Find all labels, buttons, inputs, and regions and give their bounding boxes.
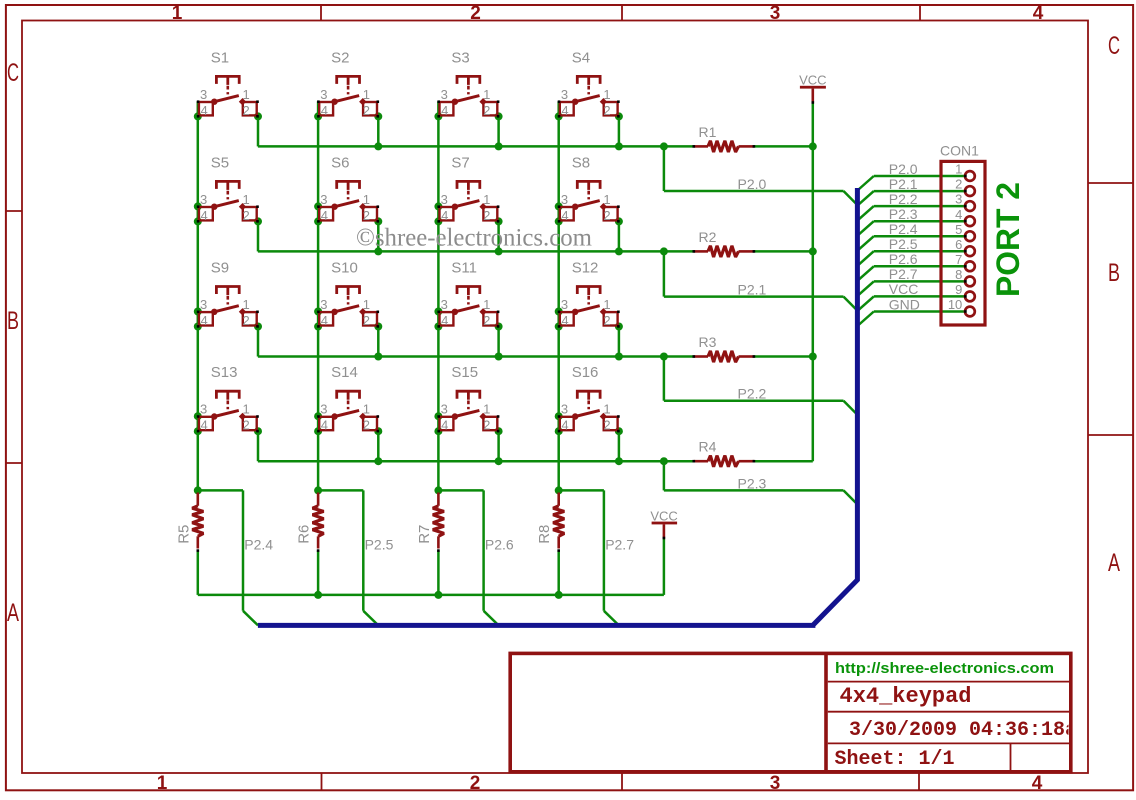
junction S15 pin4 bbox=[434, 427, 442, 435]
wire S12 pin2 drop bbox=[618, 327, 621, 357]
wire CON1 pin 7 lead bbox=[874, 265, 966, 268]
wire row 2 horizontal left segment bbox=[258, 250, 694, 253]
svg-text:VCC: VCC bbox=[889, 281, 919, 297]
junction row 3 col 3 bbox=[495, 353, 503, 361]
junction S7 pin4 bbox=[434, 217, 442, 225]
connector pin 10 circle bbox=[965, 307, 975, 317]
junction row 1 P2.0 drop bbox=[660, 142, 668, 150]
junction S11 pin3 bbox=[434, 308, 442, 316]
frame top tick 1-2 bbox=[320, 5, 322, 21]
junction S14 pin4 bbox=[314, 427, 322, 435]
wire bus exit diagonal P2.2 bbox=[857, 206, 873, 221]
junction S6 pin4 bbox=[314, 217, 322, 225]
junction S9 pin4 bbox=[194, 323, 202, 331]
connector pin 2 tick bbox=[964, 190, 967, 193]
wire S9 pin2 drop bbox=[257, 327, 260, 357]
title block row line 3 bbox=[828, 742, 1069, 744]
svg-text:P2.3: P2.3 bbox=[889, 206, 918, 222]
svg-text:P2.0: P2.0 bbox=[889, 161, 918, 177]
junction S4 pin2 bbox=[615, 112, 623, 120]
junction S5 pin4 bbox=[194, 217, 202, 225]
svg-text:P2.4: P2.4 bbox=[244, 537, 273, 553]
wire CON1 pin 6 lead bbox=[874, 250, 966, 253]
wire row 1 drop to P2.0 net bbox=[663, 146, 666, 191]
switch S16 bbox=[558, 364, 620, 432]
svg-text:2: 2 bbox=[470, 773, 481, 794]
switch S3 bbox=[437, 49, 499, 117]
wire bus exit diagonal P2.4 bbox=[857, 236, 873, 251]
svg-text:CON1: CON1 bbox=[940, 142, 979, 158]
svg-text:S4: S4 bbox=[572, 49, 590, 66]
junction row 3 P2.2 drop bbox=[660, 353, 668, 361]
wire P2.6 horizontal stub bbox=[438, 489, 483, 492]
bus P2[0..7],VCC,GND bbox=[258, 188, 858, 625]
resistor R5 bbox=[175, 493, 203, 552]
junction S8 pin2 bbox=[615, 217, 623, 225]
svg-text:GND: GND bbox=[889, 296, 920, 312]
junction S16 pin4 bbox=[555, 427, 563, 435]
wire S7 pin2 drop bbox=[497, 221, 500, 251]
wire P2.5 horizontal stub bbox=[318, 489, 363, 492]
svg-text:3/30/2009 04:36:18am: 3/30/2009 04:36:18am bbox=[849, 719, 1089, 742]
svg-text:P2.4: P2.4 bbox=[889, 221, 918, 237]
junction S2 pin2 bbox=[374, 112, 382, 120]
supply VCC bottom bbox=[650, 508, 677, 539]
junction S8 pin3 bbox=[555, 202, 563, 210]
wire P2.1 bus entry diagonal bbox=[844, 297, 858, 311]
title block divider bbox=[824, 653, 828, 771]
svg-text:R5: R5 bbox=[175, 525, 192, 544]
wire P2.3 horizontal to bus bbox=[664, 489, 844, 492]
wire S13 pin2 drop bbox=[257, 431, 260, 461]
frame bottom tick 3-4 bbox=[918, 773, 920, 790]
svg-text:P2.2: P2.2 bbox=[889, 191, 918, 207]
switch S11 bbox=[437, 260, 499, 328]
svg-text:S8: S8 bbox=[572, 154, 590, 171]
junction S5 pin3 bbox=[194, 202, 202, 210]
svg-text:5: 5 bbox=[955, 222, 962, 237]
frame top tick 2-3 bbox=[621, 5, 623, 21]
connector pin 4 tick bbox=[964, 220, 967, 223]
wire S15 pin2 drop bbox=[497, 431, 500, 461]
svg-text:A: A bbox=[7, 599, 19, 627]
wire P2.0 bus entry diagonal bbox=[844, 191, 858, 205]
title date bbox=[849, 719, 1089, 742]
connector pin 3 circle bbox=[965, 201, 975, 211]
svg-text:1: 1 bbox=[157, 773, 168, 794]
supply VCC top bbox=[799, 73, 826, 104]
wire CON1 pin 1 lead bbox=[874, 175, 966, 178]
junction R8 top / P2.7 bbox=[555, 486, 563, 494]
wire P2.7 horizontal stub bbox=[559, 489, 604, 492]
svg-text:R4: R4 bbox=[699, 439, 717, 455]
resistor R3 bbox=[693, 334, 756, 362]
title block row line 2 bbox=[828, 711, 1069, 713]
connector pin 9 tick bbox=[964, 295, 967, 298]
junction R7 bottom bbox=[434, 591, 442, 599]
wire CON1 pin 5 lead bbox=[874, 235, 966, 238]
junction S16 pin2 bbox=[615, 427, 623, 435]
svg-text:R7: R7 bbox=[416, 525, 433, 544]
connector pin 10 tick bbox=[964, 310, 967, 313]
svg-text:6: 6 bbox=[955, 237, 962, 252]
wire row 2 horizontal right segment bbox=[754, 250, 813, 253]
wire column 2 left vertical net bbox=[317, 101, 320, 490]
wire row 1 horizontal left segment bbox=[258, 145, 694, 148]
resistor R1 bbox=[693, 124, 756, 152]
svg-text:4x4_keypad: 4x4_keypad bbox=[840, 684, 972, 709]
wire P2.4 vertical bbox=[242, 490, 245, 610]
frame bottom tick 1-2 bbox=[321, 773, 323, 790]
svg-text:R3: R3 bbox=[699, 334, 717, 350]
connector pin 1 tick bbox=[964, 175, 967, 178]
switch S9 bbox=[197, 260, 259, 328]
svg-text:P2.5: P2.5 bbox=[365, 537, 394, 553]
switch S2 bbox=[317, 49, 379, 117]
svg-text:S15: S15 bbox=[451, 364, 478, 381]
connector pin 7 tick bbox=[964, 265, 967, 268]
junction S13 pin2 bbox=[254, 427, 262, 435]
wire CON1 pin 3 lead bbox=[874, 205, 966, 208]
junction S12 pin4 bbox=[555, 323, 563, 331]
junction row 2 col 2 bbox=[374, 247, 382, 255]
svg-text:S12: S12 bbox=[572, 260, 599, 277]
svg-text:©shree-electronics.com: ©shree-electronics.com bbox=[356, 225, 593, 252]
resistor R2 bbox=[693, 229, 756, 257]
connector pin 4 circle bbox=[965, 216, 975, 226]
svg-text:P2.1: P2.1 bbox=[889, 176, 918, 192]
svg-text:C: C bbox=[1108, 32, 1120, 60]
svg-text:2: 2 bbox=[955, 177, 962, 192]
svg-text:3: 3 bbox=[770, 773, 781, 794]
junction S10 pin3 bbox=[314, 308, 322, 316]
connector pin 3 tick bbox=[964, 205, 967, 208]
junction S3 pin2 bbox=[495, 112, 503, 120]
connector CON1 body bbox=[941, 161, 985, 325]
wire row 3 drop to P2.2 net bbox=[663, 357, 666, 401]
switch S14 bbox=[317, 364, 379, 432]
svg-text:P2.2: P2.2 bbox=[738, 386, 767, 402]
resistor R4 bbox=[693, 439, 756, 467]
junction S6 pin2 bbox=[374, 217, 382, 225]
wire P2.6 vertical bbox=[482, 490, 485, 610]
switch S1 bbox=[197, 49, 259, 117]
switch S10 bbox=[317, 260, 379, 328]
wire row 3 horizontal right segment bbox=[754, 355, 813, 358]
wire row 4 drop to P2.3 net bbox=[663, 461, 666, 490]
svg-text:1: 1 bbox=[955, 162, 962, 177]
resistor R7 bbox=[416, 493, 444, 552]
junction S7 pin2 bbox=[495, 217, 503, 225]
junction S11 pin2 bbox=[495, 323, 503, 331]
svg-text:R2: R2 bbox=[699, 229, 717, 245]
junction VCC line row 3 bbox=[809, 353, 817, 361]
wire P2.1 horizontal to bus bbox=[664, 295, 844, 298]
connector pin 8 tick bbox=[964, 280, 967, 283]
junction S9 pin3 bbox=[194, 308, 202, 316]
wire VCC2 vertical bbox=[663, 538, 666, 595]
wire CON1 pin 8 lead bbox=[874, 280, 966, 283]
junction row 4 col 3 bbox=[495, 457, 503, 465]
junction VCC line row 1 bbox=[809, 142, 817, 150]
junction row 1 col 4 bbox=[615, 142, 623, 150]
connector pin 5 circle bbox=[965, 231, 975, 241]
wire P2.0 horizontal to bus bbox=[664, 190, 844, 193]
svg-text:8: 8 bbox=[955, 267, 962, 282]
wire bus exit diagonal P2.3 bbox=[857, 221, 873, 236]
junction R6 bottom bbox=[314, 591, 322, 599]
svg-text:http://shree-electronics.com: http://shree-electronics.com bbox=[835, 660, 1054, 677]
wire row 1 horizontal right segment bbox=[754, 145, 813, 148]
wire P2.2 bus entry diagonal bbox=[844, 401, 858, 415]
wire CON1 pin 2 lead bbox=[874, 190, 966, 193]
wire CON1 pin 10 lead bbox=[874, 310, 966, 313]
svg-text:P2.7: P2.7 bbox=[605, 537, 634, 553]
frame right tick C-B bbox=[1088, 182, 1133, 184]
switch S15 bbox=[437, 364, 499, 432]
junction row 1 col 2 bbox=[374, 142, 382, 150]
junction R7 top / P2.6 bbox=[434, 486, 442, 494]
junction row 4 col 4 bbox=[615, 457, 623, 465]
wire VCC vertical feed bbox=[812, 103, 815, 462]
svg-text:10: 10 bbox=[948, 297, 962, 312]
wire S1 pin2 drop bbox=[257, 116, 260, 146]
junction S8 pin4 bbox=[555, 217, 563, 225]
wire row 4 horizontal left segment bbox=[258, 460, 694, 463]
wire P2.2 horizontal to bus bbox=[664, 399, 844, 402]
junction row 2 P2.1 drop bbox=[660, 247, 668, 255]
junction S2 pin4 bbox=[314, 112, 322, 120]
junction VCC line row 2 bbox=[809, 247, 817, 255]
resistor R6 bbox=[296, 493, 324, 552]
svg-text:P2.0: P2.0 bbox=[738, 176, 767, 192]
junction S4 pin4 bbox=[555, 112, 563, 120]
svg-text:S1: S1 bbox=[211, 49, 229, 66]
svg-text:PORT 2: PORT 2 bbox=[990, 182, 1026, 297]
svg-text:P2.1: P2.1 bbox=[738, 282, 767, 298]
svg-text:Sheet: 1/1: Sheet: 1/1 bbox=[835, 748, 955, 771]
svg-text:R6: R6 bbox=[296, 525, 313, 544]
svg-text:A: A bbox=[1108, 549, 1120, 577]
junction row 1 col 3 bbox=[495, 142, 503, 150]
wire S5 pin2 drop bbox=[257, 221, 260, 251]
wire S16 pin2 drop bbox=[618, 431, 621, 461]
wire S11 pin2 drop bbox=[497, 327, 500, 357]
frame bottom tick 2-3 bbox=[621, 773, 623, 790]
svg-text:P2.3: P2.3 bbox=[738, 475, 767, 491]
junction S10 pin2 bbox=[374, 323, 382, 331]
wire column 3 left vertical net bbox=[437, 101, 440, 490]
wire row 2 drop to P2.1 net bbox=[663, 251, 666, 296]
connector pin 5 tick bbox=[964, 235, 967, 238]
connector pin 2 circle bbox=[965, 186, 975, 196]
junction S12 pin2 bbox=[615, 323, 623, 331]
wire P2.7 bus entry diagonal bbox=[604, 611, 619, 626]
junction R5 top / P2.4 bbox=[194, 486, 202, 494]
wire R6 bottom lead bbox=[317, 551, 320, 595]
wire bus exit diagonal VCC bbox=[857, 296, 873, 311]
connector pin 6 circle bbox=[965, 246, 975, 256]
title block outline bbox=[510, 653, 1071, 771]
junction S5 pin2 bbox=[254, 217, 262, 225]
wire R7 bottom lead bbox=[437, 551, 440, 595]
wire row 4 horizontal right segment bbox=[754, 460, 813, 463]
svg-text:2: 2 bbox=[470, 3, 481, 24]
connector pin 1 circle bbox=[965, 171, 975, 181]
wire bus exit diagonal P2.0 bbox=[857, 176, 873, 191]
svg-text:S7: S7 bbox=[451, 154, 469, 171]
wire P2.5 bus entry diagonal bbox=[363, 611, 378, 626]
svg-text:VCC: VCC bbox=[799, 73, 826, 88]
junction S14 pin3 bbox=[314, 412, 322, 420]
svg-text:9: 9 bbox=[955, 282, 962, 297]
switch S12 bbox=[558, 260, 620, 328]
svg-text:S13: S13 bbox=[211, 364, 238, 381]
svg-text:S14: S14 bbox=[331, 364, 358, 381]
wire bus exit diagonal P2.5 bbox=[857, 251, 873, 266]
svg-text:S11: S11 bbox=[451, 260, 477, 277]
junction S16 pin3 bbox=[555, 412, 563, 420]
svg-text:S16: S16 bbox=[572, 364, 599, 381]
switch S6 bbox=[317, 154, 379, 222]
svg-text:3: 3 bbox=[955, 192, 962, 207]
svg-text:7: 7 bbox=[955, 252, 962, 267]
wire R5 bottom lead bbox=[197, 551, 200, 595]
wire P2.6 bus entry diagonal bbox=[484, 611, 499, 626]
switch S4 bbox=[558, 49, 620, 117]
junction S15 pin3 bbox=[434, 412, 442, 420]
svg-text:P2.7: P2.7 bbox=[889, 266, 918, 282]
svg-text:S3: S3 bbox=[451, 49, 469, 66]
svg-text:B: B bbox=[1108, 259, 1120, 287]
wire S6 pin2 drop bbox=[377, 221, 380, 251]
junction S13 pin3 bbox=[194, 412, 202, 420]
wire S14 pin2 drop bbox=[377, 431, 380, 461]
svg-text:P2.5: P2.5 bbox=[889, 236, 918, 252]
svg-text:1: 1 bbox=[172, 3, 183, 24]
wire CON1 pin 9 lead bbox=[874, 295, 966, 298]
wire S10 pin2 drop bbox=[377, 327, 380, 357]
svg-text:S2: S2 bbox=[331, 49, 349, 66]
wire S2 pin2 drop bbox=[377, 116, 380, 146]
svg-text:4: 4 bbox=[1033, 3, 1044, 24]
svg-text:3: 3 bbox=[770, 3, 781, 24]
svg-text:4: 4 bbox=[1032, 773, 1043, 794]
title block row line 1 bbox=[828, 681, 1069, 683]
junction S3 pin4 bbox=[434, 112, 442, 120]
junction S1 pin2 bbox=[254, 112, 262, 120]
svg-text:VCC: VCC bbox=[650, 508, 677, 523]
connector pin 9 circle bbox=[965, 292, 975, 302]
wire S8 pin2 drop bbox=[618, 221, 621, 251]
wire bus exit diagonal P2.1 bbox=[857, 191, 873, 206]
svg-text:S6: S6 bbox=[331, 154, 349, 171]
wire CON1 pin 4 lead bbox=[874, 220, 966, 223]
junction row 3 col 4 bbox=[615, 353, 623, 361]
connector pin 8 circle bbox=[965, 277, 975, 287]
junction row 4 P2.3 drop bbox=[660, 457, 668, 465]
junction row 3 col 2 bbox=[374, 353, 382, 361]
junction R8 bottom bbox=[555, 591, 563, 599]
wire R8 bottom lead bbox=[557, 551, 560, 595]
wire S3 pin2 drop bbox=[497, 116, 500, 146]
junction row 2 col 4 bbox=[615, 247, 623, 255]
wire column 1 left vertical net bbox=[197, 101, 200, 490]
svg-text:B: B bbox=[7, 307, 19, 335]
junction row 2 col 3 bbox=[495, 247, 503, 255]
wire bottom VCC rail bbox=[198, 594, 664, 597]
junction S15 pin2 bbox=[495, 427, 503, 435]
switch S13 bbox=[197, 364, 259, 432]
wire bus exit diagonal P2.6 bbox=[857, 266, 873, 281]
switch S7 bbox=[437, 154, 499, 222]
junction S12 pin3 bbox=[555, 308, 563, 316]
frame left tick B-A bbox=[6, 462, 22, 464]
svg-text:4: 4 bbox=[955, 207, 962, 222]
wire row 3 horizontal left segment bbox=[258, 355, 694, 358]
wire bus exit diagonal P2.7 bbox=[857, 281, 873, 296]
junction S10 pin4 bbox=[314, 323, 322, 331]
junction row 4 col 2 bbox=[374, 457, 382, 465]
connector pin 7 circle bbox=[965, 261, 975, 271]
junction S7 pin3 bbox=[434, 202, 442, 210]
junction S14 pin2 bbox=[374, 427, 382, 435]
svg-text:P2.6: P2.6 bbox=[889, 251, 918, 267]
svg-text:R1: R1 bbox=[699, 124, 717, 140]
svg-text:C: C bbox=[7, 59, 19, 87]
wire P2.5 vertical bbox=[362, 490, 365, 610]
junction S6 pin3 bbox=[314, 202, 322, 210]
wire column 4 left vertical net bbox=[557, 101, 560, 490]
wire bus exit diagonal GND bbox=[857, 312, 873, 327]
connector pin 6 tick bbox=[964, 250, 967, 253]
title block sheet divider bbox=[1010, 743, 1012, 771]
junction S9 pin2 bbox=[254, 323, 262, 331]
junction R6 top / P2.5 bbox=[314, 486, 322, 494]
junction S13 pin4 bbox=[194, 427, 202, 435]
svg-text:S10: S10 bbox=[331, 260, 358, 277]
wire P2.4 bus entry diagonal bbox=[243, 611, 258, 626]
switch S8 bbox=[558, 154, 620, 222]
svg-text:S9: S9 bbox=[211, 260, 229, 277]
frame top tick 3-4 bbox=[919, 5, 921, 21]
wire S4 pin2 drop bbox=[618, 116, 621, 146]
frame left tick C-B bbox=[6, 210, 22, 212]
svg-text:P2.6: P2.6 bbox=[485, 537, 514, 553]
switch S5 bbox=[197, 154, 259, 222]
resistor R8 bbox=[536, 493, 564, 552]
svg-text:R8: R8 bbox=[536, 525, 553, 544]
junction S1 pin4 bbox=[194, 112, 202, 120]
wire P2.3 bus entry diagonal bbox=[844, 490, 858, 504]
wire P2.7 vertical bbox=[603, 490, 606, 610]
svg-text:S5: S5 bbox=[211, 154, 229, 171]
junction S11 pin4 bbox=[434, 323, 442, 331]
frame right tick B-A bbox=[1088, 434, 1133, 436]
wire P2.4 horizontal stub bbox=[198, 489, 243, 492]
